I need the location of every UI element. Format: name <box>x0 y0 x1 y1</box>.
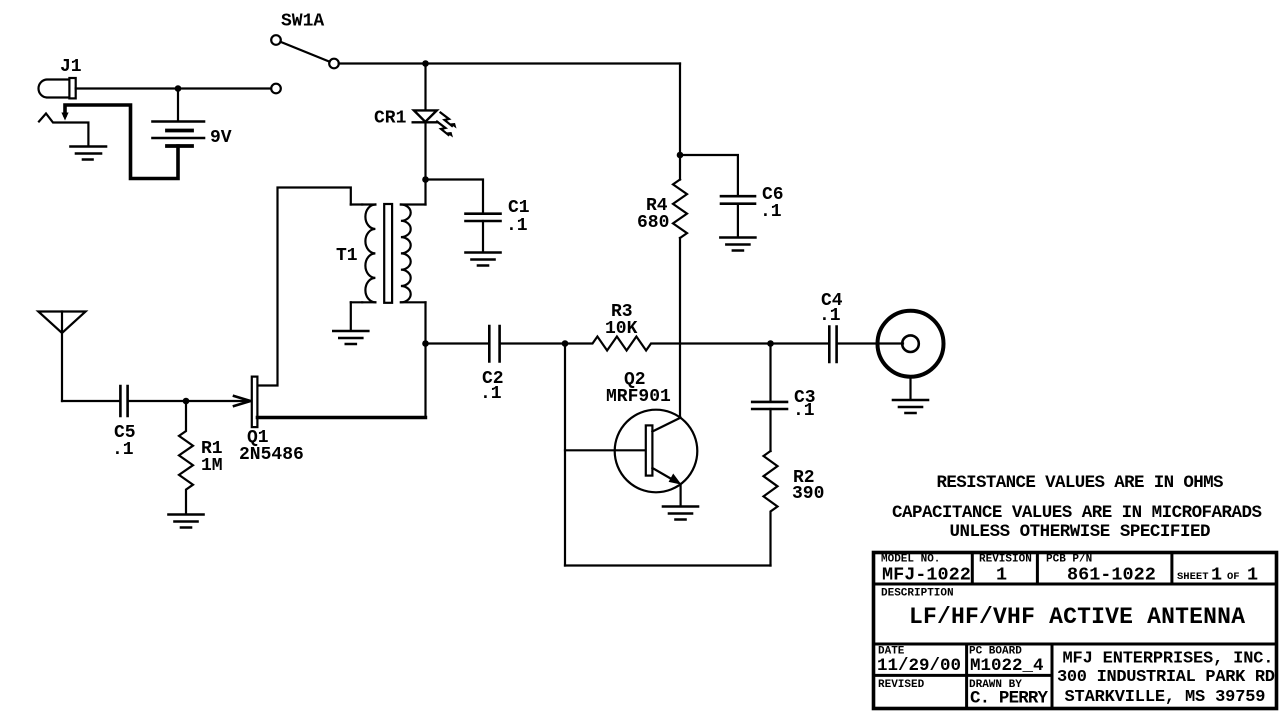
wire (C2 to R3 node) <box>500 342 565 344</box>
node (R4/C6 branch) <box>677 152 684 159</box>
svg-text:T1: T1 <box>336 246 358 266</box>
wire (Q1 source to C2 node, thick) <box>257 416 425 419</box>
svg-text:REVISED: REVISED <box>878 679 925 691</box>
svg-text:680: 680 <box>637 213 669 233</box>
capacitor C4 <box>829 327 836 363</box>
svg-text:SW1A: SW1A <box>281 12 324 32</box>
wire (C2 node to C2) <box>426 342 490 344</box>
antenna ANT1 <box>38 312 85 402</box>
wire (C4 to BNC) <box>837 342 903 344</box>
capacitor C2 <box>489 326 499 362</box>
svg-text:11/29/00: 11/29/00 <box>877 656 961 676</box>
node (R3/C3/C4) <box>767 340 774 347</box>
wire (C6 branch) <box>680 155 738 195</box>
wire (C6 to ground) <box>737 204 739 237</box>
arrow (return wire onto sleeve) <box>61 113 68 121</box>
svg-text:MFJ-1022: MFJ-1022 <box>882 565 971 586</box>
resistor R1 <box>179 401 193 513</box>
node (C2/R3/base) <box>562 340 569 347</box>
svg-text:10K: 10K <box>605 319 638 339</box>
jack sleeve lever <box>39 114 88 146</box>
connector J2 (RF output) <box>878 311 944 377</box>
wire (C5 to gate node) <box>128 400 186 402</box>
wire (C1 to ground) <box>482 221 484 252</box>
node (battery tap junction) <box>175 85 182 92</box>
svg-text:.1: .1 <box>112 440 134 460</box>
wire (BNC to ground) <box>909 377 911 399</box>
wire (base branch down from R3 node) <box>564 344 566 566</box>
svg-text:CAPACITANCE VALUES ARE IN MICR: CAPACITANCE VALUES ARE IN MICROFARADS <box>892 503 1262 523</box>
battery B1 9V <box>153 122 205 147</box>
capacitor C6 <box>721 196 755 204</box>
ground (under C1) <box>466 253 501 266</box>
ground (under BNC) <box>893 400 928 413</box>
svg-text:DESCRIPTION: DESCRIPTION <box>881 588 954 600</box>
transformer T1 <box>351 204 426 303</box>
CR1 light arrows <box>437 113 457 138</box>
capacitor C5 <box>120 386 127 416</box>
resistor R4 <box>673 180 687 239</box>
transistor Q2 (MRF901) <box>615 410 698 493</box>
wire (battery negative return, thick) <box>65 105 178 179</box>
svg-text:MRF901: MRF901 <box>606 387 671 407</box>
switch SW1A <box>271 35 339 93</box>
LED CR1 <box>413 110 438 122</box>
ground (under C6) <box>720 238 755 251</box>
svg-text:CR1: CR1 <box>374 109 407 129</box>
wire (bottom emitter-feedback rail) <box>565 564 771 566</box>
wire (jack tip to switch) <box>76 87 271 89</box>
wire (gate lead) <box>186 400 249 402</box>
svg-text:390: 390 <box>792 484 824 504</box>
ground (under J1 sleeve) <box>71 147 107 160</box>
capacitor C1 <box>466 214 501 221</box>
svg-text:861-1022: 861-1022 <box>1067 565 1156 586</box>
connector J1 (power jack) <box>38 78 75 98</box>
ground (under R1) <box>169 515 204 528</box>
wire (Q2 emitter to ground) <box>679 484 681 506</box>
svg-text:.1: .1 <box>506 216 528 236</box>
resistor R2 <box>764 451 778 566</box>
svg-text:1M: 1M <box>201 456 223 476</box>
svg-text:C1: C1 <box>508 198 530 218</box>
wire (base lead to Q2) <box>565 449 646 451</box>
arrow (Q2 emitter) <box>669 474 682 485</box>
wire (rail down to LED anode) <box>424 64 426 111</box>
svg-text:.1: .1 <box>793 401 815 421</box>
ground (under T1) <box>333 331 368 344</box>
svg-text:SHEET: SHEET <box>1177 571 1209 583</box>
svg-text:UNLESS OTHERWISE SPECIFIED: UNLESS OTHERWISE SPECIFIED <box>950 522 1211 542</box>
svg-text:1: 1 <box>996 565 1007 586</box>
svg-text:2N5486: 2N5486 <box>239 445 304 465</box>
wire (T1 primary bottom to ground) <box>350 302 352 330</box>
node (CR1/C1 branch) <box>422 176 429 183</box>
wire (T1 primary top loop to Q1 drain) <box>257 188 350 386</box>
wire (R4 to Q2 collector) <box>679 238 681 418</box>
transistor Q1 (JFET 2N5486) <box>252 377 258 428</box>
wire (T1 secondary bottom down to C2 node) <box>424 302 426 417</box>
svg-text:1: 1 <box>1211 565 1222 586</box>
svg-text:.1: .1 <box>760 202 782 222</box>
resistor R3 <box>565 337 771 351</box>
wire (R3 node down to C3) <box>769 344 771 401</box>
svg-text:1: 1 <box>1247 565 1258 586</box>
svg-text:LF/HF/VHF ACTIVE ANTENNA: LF/HF/VHF ACTIVE ANTENNA <box>909 604 1245 630</box>
wire (node to C4) <box>771 342 830 344</box>
wire (top rail down the R4 column) <box>679 64 681 180</box>
node (T1/C2 junction) <box>422 340 429 347</box>
svg-text:OF: OF <box>1227 571 1240 583</box>
wire (branch to C1) <box>426 180 484 213</box>
svg-text:J1: J1 <box>60 57 82 77</box>
svg-text:MFJ ENTERPRISES, INC.: MFJ ENTERPRISES, INC. <box>1063 650 1274 669</box>
capacitor C3 <box>752 402 787 409</box>
svg-text:.1: .1 <box>480 384 502 404</box>
svg-text:M1022_4: M1022_4 <box>970 656 1044 676</box>
svg-text:STARKVILLE, MS 39759: STARKVILLE, MS 39759 <box>1065 688 1266 707</box>
svg-text:RESISTANCE VALUES ARE IN OHMS: RESISTANCE VALUES ARE IN OHMS <box>937 473 1224 493</box>
svg-text:9V: 9V <box>210 128 232 148</box>
node (rail to CR1) <box>422 60 429 67</box>
svg-text:300 INDUSTRIAL PARK RD: 300 INDUSTRIAL PARK RD <box>1057 668 1275 687</box>
svg-text:.1: .1 <box>819 306 841 326</box>
wire (LED cathode down) <box>424 122 426 204</box>
wire (C3 to R2) <box>769 409 771 451</box>
wire (top rail, switch to R4 column) <box>339 62 680 64</box>
wire (antenna to C5) <box>62 400 120 402</box>
arrow (JFET gate) <box>234 396 251 406</box>
wire (junction down to battery) <box>177 89 179 121</box>
node (C5/R1/gate) <box>183 398 190 405</box>
svg-text:C. PERRY: C. PERRY <box>970 689 1048 709</box>
title block frame <box>874 553 1277 709</box>
ground (under Q2) <box>663 507 698 520</box>
